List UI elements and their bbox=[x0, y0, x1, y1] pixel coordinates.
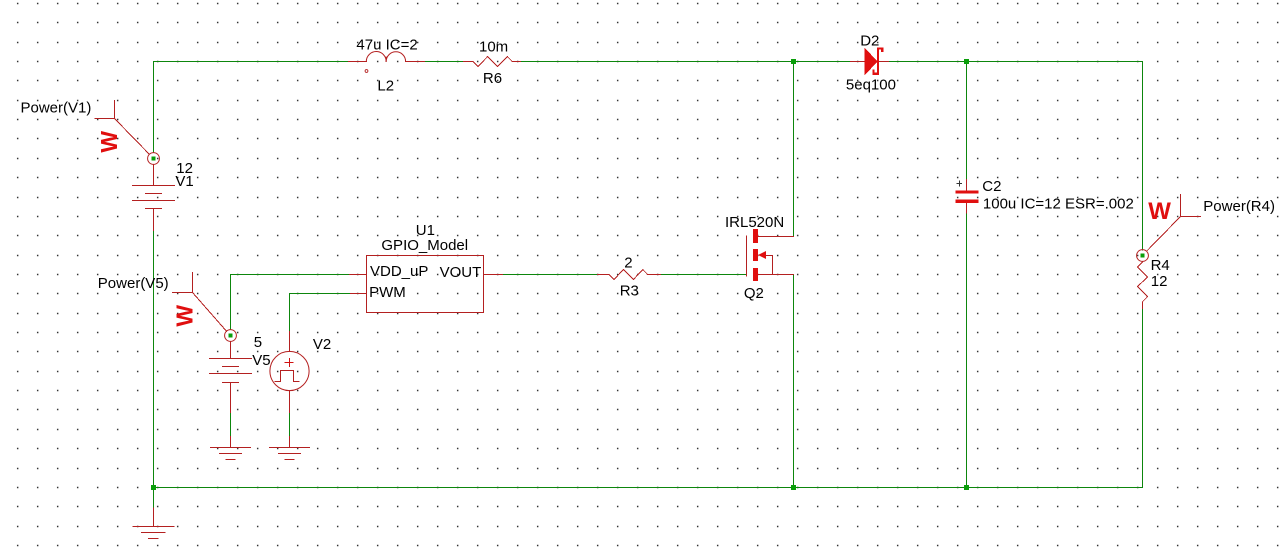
svg-text:R6: R6 bbox=[483, 70, 502, 87]
voltage source V1 lead top bbox=[153, 165, 155, 186]
svg-text:Power(R4): Power(R4) bbox=[1203, 198, 1275, 215]
wire VOUT to R3 bbox=[503, 274, 598, 276]
svg-text:2: 2 bbox=[624, 255, 632, 272]
wire V5 to ground bbox=[230, 413, 232, 437]
voltage source V1 plates bbox=[133, 186, 175, 209]
ground V2 bbox=[270, 437, 310, 460]
resistor R4 bbox=[1138, 261, 1148, 308]
svg-text:VDD_uP: VDD_uP bbox=[370, 263, 428, 280]
diode D2 triangle bbox=[864, 48, 877, 76]
capacitor C2 polarity plus bbox=[957, 181, 963, 187]
voltage source V1 lead bottom bbox=[153, 209, 155, 231]
probe junction square V1 bbox=[152, 157, 156, 161]
voltage source V5 lead top bbox=[230, 342, 232, 359]
transistor Q2 source lead bbox=[758, 274, 794, 276]
wire top rail segment 3 bbox=[521, 61, 851, 63]
wire C2 top vertical bbox=[966, 62, 968, 180]
op-amp U1 pin VOUT lead bbox=[484, 274, 503, 276]
probe wire Power(V5) bbox=[173, 273, 227, 332]
svg-text:Q2: Q2 bbox=[744, 285, 764, 302]
node junction top Q2 drain bbox=[791, 59, 796, 64]
wire top rail segment 4 bbox=[889, 61, 1143, 63]
inductor L2 leads bbox=[349, 61, 425, 63]
probe wire Power(R4) bbox=[1147, 195, 1201, 252]
wire R4 bottom vertical bbox=[1142, 309, 1144, 488]
transistor Q2 source bar bbox=[753, 268, 758, 281]
transistor Q2 body connection bbox=[766, 256, 773, 275]
wire top rail segment 1 bbox=[154, 61, 349, 63]
pulse source V2 plus sign bbox=[285, 358, 294, 367]
op-amp U1 box (GPIO_Model) bbox=[367, 256, 484, 313]
wire top rail segment 2 bbox=[425, 61, 464, 63]
op-amp U1 pin VDD_uP lead bbox=[350, 274, 367, 276]
capacitor C2 plate bottom bbox=[955, 200, 978, 203]
svg-text:V5: V5 bbox=[252, 352, 270, 369]
node junction bottom Q2 source bbox=[791, 485, 796, 490]
svg-text:L2: L2 bbox=[377, 78, 394, 95]
probe wire Power(V1) bbox=[95, 101, 149, 155]
wire R4 top vertical bbox=[1142, 62, 1144, 251]
voltage source V5 lead bottom bbox=[230, 383, 232, 413]
inductor L2 cusp bbox=[385, 57, 387, 61]
svg-text:10m: 10m bbox=[479, 39, 508, 56]
svg-text:5eq100: 5eq100 bbox=[846, 77, 896, 94]
svg-text:5: 5 bbox=[254, 334, 262, 351]
probe circle V5 bbox=[225, 330, 237, 342]
capacitor C2 plate top bbox=[955, 191, 978, 194]
transistor Q2 drain bar bbox=[753, 229, 758, 243]
svg-text:C2: C2 bbox=[982, 178, 1001, 195]
wire PWM to V2 bbox=[290, 294, 351, 332]
diode D2 cathode bar with hooks bbox=[872, 47, 883, 75]
pulse source V2 circle bbox=[270, 351, 309, 390]
svg-text:R4: R4 bbox=[1151, 257, 1170, 274]
svg-text:VOUT: VOUT bbox=[440, 264, 482, 281]
resistor R3 bbox=[598, 270, 661, 280]
svg-text:Power(V1): Power(V1) bbox=[21, 100, 92, 117]
svg-text:D2: D2 bbox=[860, 32, 879, 49]
ground main (V1) bbox=[133, 508, 174, 539]
pulse source V2 lead bottom bbox=[289, 391, 291, 413]
probe circle R4 bbox=[1137, 250, 1149, 262]
svg-text:GPIO_Model: GPIO_Model bbox=[381, 237, 468, 254]
node junction top C2 bbox=[964, 59, 969, 64]
svg-text:47u IC=2: 47u IC=2 bbox=[356, 37, 417, 54]
svg-text:12: 12 bbox=[1151, 273, 1168, 290]
transistor Q2 gate bar bbox=[746, 236, 748, 276]
wire Q2 source vertical bbox=[793, 275, 795, 488]
svg-text:PWM: PWM bbox=[369, 284, 406, 301]
svg-text:W: W bbox=[96, 131, 122, 153]
diode D2 lead left bbox=[851, 61, 865, 63]
capacitor C2 lead top bbox=[966, 180, 968, 191]
wire C2 bottom vertical bbox=[966, 213, 968, 488]
probe junction square V5 bbox=[229, 334, 233, 338]
transistor Q2 body bar bbox=[753, 249, 758, 261]
svg-text:W: W bbox=[1148, 198, 1171, 225]
svg-text:R3: R3 bbox=[620, 283, 639, 300]
wire left rail upper bbox=[153, 62, 155, 153]
pulse source V2 lead top bbox=[289, 332, 291, 352]
probe circle V1 bbox=[148, 153, 160, 165]
wire R3 to Q2 gate bbox=[661, 274, 747, 276]
resistor R6 bbox=[464, 57, 521, 67]
pulse source V2 waveform glyph bbox=[275, 371, 300, 382]
ground V5 bbox=[211, 437, 251, 460]
inductor L2 coils bbox=[366, 52, 405, 62]
svg-text:Power(V5): Power(V5) bbox=[98, 275, 169, 292]
wire bottom rail bbox=[154, 487, 1143, 489]
transistor Q2 arrow bbox=[758, 251, 766, 259]
probe junction square R4 bbox=[1141, 254, 1145, 258]
wire V2 to ground bbox=[289, 413, 291, 437]
wire Q2 drain vertical bbox=[793, 62, 795, 237]
wire left rail lower bbox=[153, 231, 155, 488]
transistor Q2 drain lead bbox=[758, 236, 794, 238]
wire ground stub bottom-left bbox=[153, 488, 155, 509]
svg-text:W: W bbox=[172, 305, 198, 327]
node junction bottom C2 bbox=[964, 485, 969, 490]
diode D2 lead right bbox=[880, 61, 889, 63]
node junction bottom-left ground bbox=[151, 485, 156, 490]
inductor L2 phase dot bbox=[365, 70, 368, 73]
svg-text:V2: V2 bbox=[313, 336, 331, 353]
svg-text:V1: V1 bbox=[175, 173, 193, 190]
op-amp U1 pin PWM lead bbox=[351, 293, 367, 295]
capacitor C2 lead bottom bbox=[966, 203, 968, 213]
svg-text:100u IC=12 ESR=.002: 100u IC=12 ESR=.002 bbox=[983, 196, 1134, 213]
wire VDD_uP to V5 bbox=[231, 275, 350, 330]
voltage source V5 plates bbox=[210, 359, 252, 383]
svg-text:IRL520N: IRL520N bbox=[725, 214, 784, 231]
